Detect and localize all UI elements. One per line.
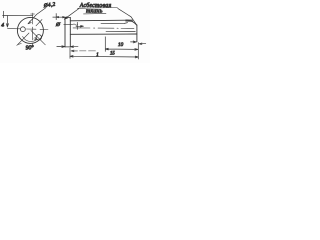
arrow at right edge bottom bbox=[131, 41, 137, 43]
tick after flange bbox=[76, 22, 78, 29]
outside arrow right of extension bbox=[139, 43, 146, 45]
right view top-left dim extension bbox=[55, 14, 57, 20]
radius arrow (vertical, pointing down) bbox=[6, 16, 8, 27]
flange left edge bbox=[64, 17, 66, 47]
small arrow to flange at lower line bbox=[71, 50, 78, 52]
label leader left bbox=[64, 9, 79, 20]
dim 10 line bbox=[105, 48, 138, 50]
dashes right of flange dim bbox=[80, 50, 96, 52]
leader to hole label bbox=[28, 8, 46, 24]
overall dim left extension bbox=[69, 48, 71, 58]
flange thickness dim left arrow bbox=[57, 46, 65, 48]
dim 10 left extension bbox=[104, 37, 106, 52]
svg-text:15: 15 bbox=[110, 51, 115, 56]
svg-text:Ø4,2: Ø4,2 bbox=[42, 2, 56, 10]
label underline 1 bbox=[78, 7, 118, 10]
svg-text:Ø: Ø bbox=[55, 22, 61, 28]
diagonal through hole 2 bbox=[31, 31, 45, 45]
body right edge bbox=[136, 25, 138, 42]
diagonal centerline bbox=[17, 20, 42, 46]
gap dim arrow bbox=[76, 25, 84, 27]
label leader right bbox=[118, 8, 137, 24]
body top edge bbox=[70, 20, 137, 25]
body bottom edge bbox=[70, 33, 137, 35]
cloth wrap lower line bbox=[106, 30, 135, 32]
svg-text:10: 10 bbox=[118, 42, 124, 48]
right view top dim line bbox=[53, 16, 65, 18]
flange thickness dim right arrow bbox=[70, 46, 78, 48]
svg-text:90°: 90° bbox=[25, 44, 34, 52]
hole 2 bbox=[36, 35, 41, 40]
flange top cap bbox=[65, 16, 70, 18]
vertical centerline bbox=[31, 13, 34, 48]
label underline 2 bbox=[84, 12, 107, 15]
top dimension line bbox=[3, 14, 33, 16]
cloth wrap dark end bbox=[125, 19, 132, 21]
flange centerline dash bbox=[64, 23, 73, 25]
cloth wrap top line bbox=[101, 23, 128, 24]
overall dim right extension bbox=[137, 43, 139, 59]
svg-text:1: 1 bbox=[96, 53, 98, 58]
body centerline bbox=[73, 27, 134, 30]
angle arc bbox=[23, 37, 37, 42]
hole 1 bbox=[21, 27, 26, 32]
flange bottom cap bbox=[65, 46, 70, 48]
overall dim line bbox=[70, 56, 138, 58]
flange outer circle bbox=[17, 17, 43, 43]
gap squiggle dim bbox=[73, 24, 78, 25]
svg-text:4: 4 bbox=[1, 23, 4, 29]
left extension tick bbox=[2, 11, 4, 18]
horizontal centerline bbox=[8, 28, 49, 31]
vertical centerline top tick bbox=[31, 13, 35, 15]
flange right edge bbox=[69, 17, 71, 47]
